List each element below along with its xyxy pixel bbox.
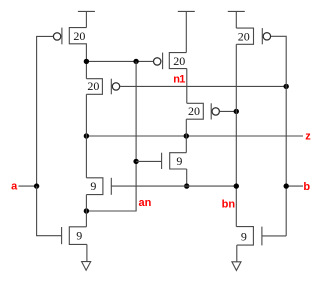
VDD supply bar (right, over M5) xyxy=(228,10,245,12)
junction dot at (136,61) xyxy=(133,59,138,64)
wire: node an horizontal to M2 gate xyxy=(86,60,153,62)
svg-text:z: z xyxy=(305,131,311,143)
svg-text:n1: n1 xyxy=(173,73,185,85)
wire: M7 source down to M6 drain xyxy=(185,119,187,153)
wire: M2 drain to VDD xyxy=(185,11,187,52)
wire: M5 drain to VDD xyxy=(235,11,237,28)
label b xyxy=(303,181,310,193)
wire: M6 source to an/bn row xyxy=(186,169,188,186)
ground symbol (left) xyxy=(82,262,91,271)
wire: M4 gate to bn junction row xyxy=(111,185,236,187)
wire: a label to a column xyxy=(19,185,37,187)
transistor M3 pmos w=20 (third row left) xyxy=(86,79,119,95)
wire: node b horizontal from M3 gate to b column xyxy=(120,85,286,87)
wire: M5 source down to M8 drain (bn column) xyxy=(235,44,237,226)
label bn xyxy=(222,198,236,210)
wire: output z horizontal xyxy=(86,135,303,137)
label an xyxy=(139,197,152,209)
transistor M1 pmos w=20 (top left) xyxy=(53,28,87,45)
svg-text:20: 20 xyxy=(188,104,200,118)
wire: M8 source to ground xyxy=(236,245,238,262)
wire: M2 source down to M7 drain (node n1) xyxy=(186,69,188,104)
transistor M2 pmos w=20 (second row) xyxy=(154,53,187,70)
wire: M5 gate to b column xyxy=(271,36,286,236)
svg-text:a: a xyxy=(11,181,18,193)
svg-text:bn: bn xyxy=(222,198,236,210)
transistor M9 nmos w=9 (bottom left) xyxy=(62,227,87,245)
junction dot at (86,211) xyxy=(84,208,89,213)
wire: M1 drain to VDD xyxy=(85,11,87,27)
transistor M8 nmos w=9 (bottom right) xyxy=(236,227,262,246)
junction dot at (86,61) xyxy=(84,59,89,64)
svg-text:b: b xyxy=(303,181,310,193)
wire: M6 gate tap from an column xyxy=(136,160,162,162)
wire: M8 gate to b column xyxy=(262,235,286,237)
transistor M4 nmos w=9 (row a) xyxy=(86,178,111,195)
label z xyxy=(305,131,311,143)
label n1 xyxy=(173,73,185,85)
wire: b label to b column xyxy=(286,185,303,187)
wire: M9 source to ground xyxy=(86,244,88,261)
VDD supply bar (middle, over M2) xyxy=(178,10,195,12)
svg-text:20: 20 xyxy=(238,29,250,43)
junction dot at (236,111) xyxy=(234,109,239,114)
junction dot at (286,186) xyxy=(284,183,289,188)
svg-text:20: 20 xyxy=(87,79,99,93)
wire: a column down to M9 gate xyxy=(37,186,62,236)
svg-text:9: 9 xyxy=(241,230,247,244)
ground symbol (right) xyxy=(232,262,241,271)
junction dot at (186,136) xyxy=(184,133,189,138)
wire: M1 source down to M3 drain xyxy=(85,44,87,79)
wire: M4 source down to M9 drain xyxy=(85,195,87,227)
svg-text:an: an xyxy=(139,197,152,209)
transistor M6 nmos w=9 (middle) xyxy=(162,153,187,169)
junction dot at (136,161) xyxy=(133,159,138,164)
VDD supply bar (left, over M1) xyxy=(78,10,95,12)
junction dot at (286,86) xyxy=(284,84,289,89)
wire: an vertical column x=136 with jog to M4 source xyxy=(86,61,136,211)
wire: M7 gate to bn column xyxy=(220,110,236,112)
junction dot at (236,186) xyxy=(234,183,239,188)
svg-text:20: 20 xyxy=(73,29,85,43)
wire: M3 source down to M4 drain xyxy=(85,94,87,178)
svg-text:9: 9 xyxy=(90,179,96,193)
label a xyxy=(11,181,18,193)
svg-text:20: 20 xyxy=(173,54,185,68)
junction dot at (86,136) xyxy=(84,133,89,138)
transistor M7 pmos w=20 (fourth row middle) xyxy=(186,103,219,119)
svg-text:9: 9 xyxy=(76,229,82,243)
wire: node a column to M1 gate xyxy=(37,36,54,186)
transistor M5 pmos w=20 (top right) xyxy=(236,28,270,44)
svg-text:9: 9 xyxy=(176,154,182,168)
junction dot at (186.7,186) xyxy=(184,183,189,188)
junction dot at (36.6,186) xyxy=(34,183,39,188)
